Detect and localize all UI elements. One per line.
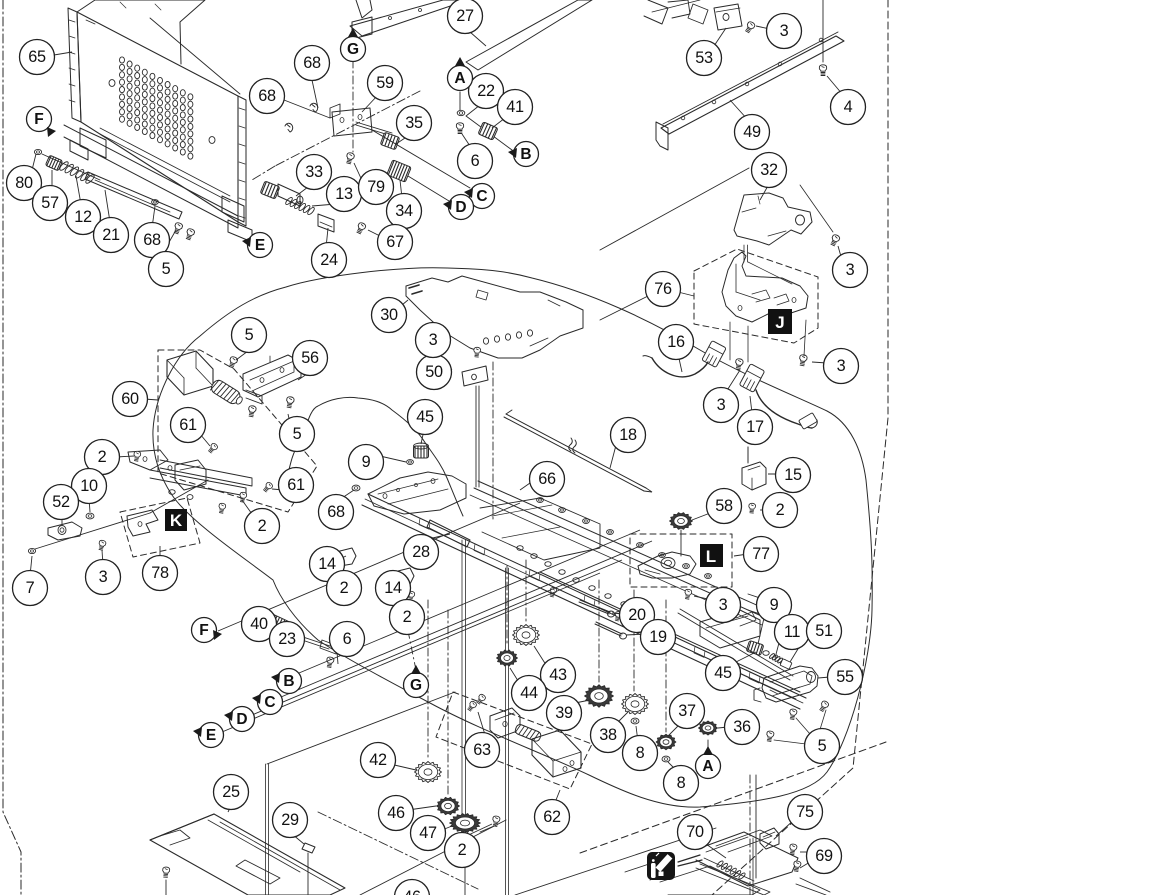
callout 66 (530, 462, 565, 497)
view arrow C (258, 690, 283, 715)
svg-text:14: 14 (384, 579, 402, 597)
drop 17-15 (747, 447, 749, 462)
svg-text:2: 2 (98, 448, 107, 466)
svg-text:53: 53 (695, 49, 713, 67)
K bracket (127, 510, 158, 536)
callout 14 (376, 571, 411, 606)
svg-text:24: 24 (320, 251, 338, 269)
svg-text:L: L (706, 547, 716, 566)
callout 65 (20, 40, 55, 75)
callout 4 (831, 90, 866, 125)
gear 39 (585, 685, 614, 708)
solenoid 60 body (167, 351, 213, 395)
bracket 55 (762, 666, 818, 702)
screw 3 top right (829, 234, 840, 247)
callout 6 (458, 144, 493, 179)
rod 20 (580, 600, 610, 612)
svg-text:23: 23 (278, 630, 296, 648)
zone line top-center (275, 91, 420, 166)
svg-text:D: D (236, 711, 247, 728)
screw 4 + drop line (822, 0, 824, 62)
svg-text:29: 29 (281, 811, 299, 829)
callout 2 (763, 493, 798, 528)
rod 50 vertical (475, 386, 477, 487)
svg-text:6: 6 (471, 152, 480, 170)
rod 19 (596, 622, 622, 634)
knob 35 (380, 132, 399, 150)
callout 40 (242, 607, 277, 642)
svg-text:13: 13 (335, 185, 353, 203)
pin 51 (780, 659, 792, 670)
gear 38 (622, 694, 649, 715)
callout 36 (725, 710, 760, 745)
rail 49 (661, 36, 844, 134)
callout 44 (512, 676, 547, 711)
svg-text:F: F (34, 111, 43, 128)
callout 46 (379, 796, 414, 831)
wire 17 (756, 390, 812, 428)
screw 2 (47) (492, 816, 501, 827)
gear 47 (450, 814, 481, 833)
bracket 15 (742, 462, 766, 490)
svg-text:2: 2 (458, 841, 467, 859)
view arrow A (448, 66, 473, 91)
washer 79 screw (345, 152, 355, 164)
svg-text:C: C (264, 694, 275, 711)
callout 2 (85, 440, 120, 475)
svg-text:2: 2 (403, 608, 412, 626)
callout 68 (319, 495, 354, 530)
svg-text:3: 3 (719, 596, 728, 614)
plate 32 (734, 193, 812, 245)
svg-text:15: 15 (784, 466, 802, 484)
plates 61 (128, 450, 168, 470)
lever 52 (48, 522, 82, 540)
svg-text:33: 33 (305, 163, 323, 181)
svg-text:45: 45 (714, 664, 732, 682)
bracket 53 (714, 4, 742, 30)
washer 68 a (310, 103, 318, 112)
label L (700, 544, 723, 567)
back panel top (95, 0, 205, 64)
callout 16 (659, 325, 694, 360)
14b screw (407, 591, 415, 602)
plate holes (109, 80, 115, 87)
svg-text:3: 3 (780, 22, 789, 40)
J dashed zone (694, 249, 818, 343)
svg-text:B: B (520, 146, 531, 163)
lever shaft (35, 513, 150, 549)
callout 77 (744, 537, 779, 572)
plate 65 main face (77, 12, 238, 222)
callout 68 (295, 46, 330, 81)
svg-text:21: 21 (102, 226, 120, 244)
shaft D line (408, 176, 449, 201)
svg-text:61: 61 (179, 416, 197, 434)
svg-text:25: 25 (222, 783, 240, 801)
callout 61 (279, 468, 314, 503)
line B2 (299, 530, 640, 673)
14a bracket (334, 548, 356, 566)
svg-text:C: C (476, 188, 487, 205)
K dashed zone (120, 498, 200, 557)
bracket 56 (243, 355, 301, 397)
right end brackets of rail (700, 610, 760, 648)
callout 11 (775, 615, 810, 650)
callout 53 (687, 41, 722, 76)
view arrow F (27, 107, 52, 132)
callout 2 (445, 833, 480, 868)
svg-text:5: 5 (245, 326, 254, 344)
svg-text:55: 55 (836, 668, 854, 686)
svg-text:80: 80 (15, 174, 33, 192)
bar 28 (427, 520, 470, 547)
svg-text:E: E (206, 727, 216, 744)
drop lines to gears (525, 560, 527, 622)
second lower bar (540, 572, 800, 692)
svg-text:51: 51 (815, 622, 833, 640)
shaft 18 tail top (506, 410, 512, 414)
66 washers row (537, 498, 544, 503)
callout 41 (498, 90, 533, 125)
callout 78 (143, 556, 178, 591)
svg-text:20: 20 (628, 606, 646, 624)
shaft to B (466, 116, 512, 150)
carriage mid block (480, 498, 600, 560)
svg-text:58: 58 (715, 497, 733, 515)
gear 46 (437, 797, 460, 814)
svg-text:76: 76 (654, 280, 672, 298)
svg-text:62: 62 (543, 808, 561, 826)
screw 3 (53) (744, 21, 756, 34)
callout 3 (706, 588, 741, 623)
24 bracket small (318, 214, 334, 232)
connector 16 (702, 341, 726, 368)
svg-text:D: D (455, 199, 466, 216)
line D2 (252, 560, 622, 715)
gear 36 (699, 721, 718, 735)
rail 49 left foot (656, 122, 668, 150)
drop lines 32 to 76 (743, 245, 745, 262)
knob 40 (261, 612, 292, 638)
callout 58 (707, 489, 742, 524)
svg-text:3: 3 (837, 357, 846, 375)
washer 7 (28, 548, 35, 553)
callout 28 (404, 535, 439, 570)
callout 29 (273, 803, 308, 838)
callout 23 (270, 622, 305, 657)
gear 58 (670, 513, 693, 530)
svg-text:J: J (775, 313, 784, 332)
dashdot vertical center (492, 362, 494, 522)
A drop line (459, 92, 461, 110)
callout 79 (359, 170, 394, 205)
callout 43 (541, 658, 576, 693)
page border dash-dot left (3, 0, 21, 895)
svg-text:27: 27 (456, 7, 474, 25)
callout 63 (465, 733, 500, 768)
svg-text:3: 3 (429, 331, 438, 349)
svg-text:46: 46 (387, 804, 405, 822)
svg-text:5: 5 (818, 737, 827, 755)
60 dashed zone (158, 350, 317, 512)
shaft break mark (569, 438, 573, 451)
svg-text:8: 8 (677, 774, 686, 792)
washer 68c (352, 485, 360, 491)
view arrow E (248, 233, 273, 258)
knob 41 (478, 122, 498, 140)
flag above rail (356, 0, 372, 18)
svg-text:K: K (170, 511, 183, 530)
line G2 dashdot (398, 582, 416, 670)
plate inner edge lines (86, 20, 95, 24)
screws 5 (55) (766, 731, 775, 742)
gear 44 (497, 650, 518, 666)
svg-text:30: 30 (380, 306, 398, 324)
callout 67 (378, 225, 413, 260)
motor 62 body (532, 730, 581, 777)
callout 37 (670, 694, 705, 729)
callout 6 (330, 622, 365, 657)
screw 3 above 50 (473, 347, 480, 357)
14a screw (337, 573, 345, 584)
label K (165, 509, 187, 531)
gear 42 (415, 762, 442, 783)
callout 47 (411, 816, 446, 851)
zone line to J (600, 168, 749, 250)
screws 5 of 56 (228, 356, 238, 369)
svg-text:19: 19 (649, 628, 667, 646)
view arrow D (230, 707, 255, 732)
line C2 (281, 541, 652, 697)
svg-text:77: 77 (752, 545, 770, 563)
svg-text:68: 68 (327, 503, 345, 521)
washer 9b (763, 651, 769, 656)
callout 8 (664, 766, 699, 801)
svg-text:57: 57 (41, 194, 59, 212)
svg-text:45: 45 (416, 408, 434, 426)
svg-text:41: 41 (506, 98, 524, 116)
svg-text:67: 67 (386, 233, 404, 251)
dashed zone 62 (436, 692, 592, 789)
callout 8 (623, 736, 658, 771)
rod 23 (288, 632, 330, 646)
shaft to knob 35 (356, 122, 392, 133)
svg-text:9: 9 (770, 596, 779, 614)
callout 45 (706, 656, 741, 691)
bracket 59 (332, 108, 372, 136)
callout 5 (149, 252, 184, 287)
svg-text:36: 36 (733, 718, 751, 736)
svg-text:44: 44 (520, 684, 538, 702)
svg-text:56: 56 (301, 349, 319, 367)
svg-text:3: 3 (846, 261, 855, 279)
shaft 18 (506, 414, 646, 488)
washer 68 b (285, 123, 293, 132)
spring 11 (769, 653, 775, 659)
svg-text:8: 8 (636, 744, 645, 762)
bracket + screw below 25 (162, 867, 170, 878)
callout 38 (591, 718, 626, 753)
plate 70 assembly (696, 832, 798, 886)
svg-text:7: 7 (26, 579, 35, 597)
svg-text:G: G (347, 41, 359, 58)
svg-text:10: 10 (80, 477, 98, 495)
washer 80 (34, 149, 41, 154)
bracket F area (80, 128, 106, 158)
view arrow G (341, 37, 366, 62)
callout 3 (824, 349, 859, 384)
svg-text:68: 68 (303, 54, 321, 72)
callout 30 (372, 298, 407, 333)
callout 34 (387, 194, 422, 229)
part 29 diamond (302, 843, 315, 853)
svg-text:35: 35 (405, 114, 423, 132)
line E2 (222, 573, 600, 732)
plate 75 (760, 828, 779, 849)
svg-text:70: 70 (686, 823, 704, 841)
callout 39 (547, 696, 582, 731)
callout 76 (646, 272, 681, 307)
svg-text:11: 11 (784, 623, 801, 641)
svg-text:69: 69 (815, 847, 833, 865)
vertical zone line (265, 764, 267, 895)
washer 8a (631, 718, 639, 724)
screws 63 (467, 700, 478, 712)
svg-text:22: 22 (477, 82, 495, 100)
small screw near 68 washer (152, 200, 159, 205)
svg-text:6: 6 (343, 630, 352, 648)
svg-text:43: 43 (549, 666, 567, 684)
small parts center 61 (169, 490, 175, 495)
callout 68 (135, 223, 170, 258)
svg-text:2: 2 (340, 579, 349, 597)
washers below rail (517, 546, 523, 551)
svg-text:46: 46 (403, 888, 421, 895)
svg-text:63: 63 (473, 741, 491, 759)
zone dashed line bottom right (580, 742, 886, 853)
pulley 45 (414, 446, 429, 458)
callout 21 (94, 218, 129, 253)
shaft through (42, 154, 100, 180)
bottom rail bar (64, 125, 238, 228)
callout 69 (807, 839, 842, 874)
screw 3b (98, 540, 107, 551)
callout 9 (757, 588, 792, 623)
callout 52 (44, 485, 79, 520)
svg-text:60: 60 (121, 390, 139, 408)
svg-text:3: 3 (717, 396, 726, 414)
66 end bracket (748, 594, 772, 618)
svg-text:A: A (702, 758, 713, 775)
view arrow B (514, 142, 539, 167)
screw 6b (326, 657, 335, 668)
worm shaft 62 (514, 723, 542, 742)
svg-text:2: 2 (776, 501, 785, 519)
bottom centre zone lines (318, 812, 478, 889)
svg-text:16: 16 (667, 333, 685, 351)
screw 3 bottom (J) (798, 354, 807, 366)
pulley 45b (746, 640, 764, 655)
callout 3 (704, 388, 739, 423)
callout 14 (310, 547, 345, 582)
svg-text:78: 78 (151, 564, 169, 582)
svg-text:42: 42 (369, 751, 387, 769)
page border dashed right (712, 0, 888, 895)
svg-text:3: 3 (99, 568, 108, 586)
plate left edge strip (68, 8, 81, 122)
small screws below rail (549, 587, 557, 597)
callout 70 (678, 815, 713, 850)
callout 5 (280, 417, 315, 452)
callout 56 (293, 341, 328, 376)
bracket 77 (638, 552, 696, 578)
callout 3 (767, 14, 802, 49)
view arrow D (449, 195, 474, 220)
lower extra plates (696, 864, 770, 895)
upper rail 66 bar (478, 481, 770, 611)
view arrow A (696, 754, 721, 779)
screws 69 (789, 844, 798, 855)
callout 50 (417, 355, 452, 390)
svg-text:39: 39 (555, 704, 573, 722)
bracket 50 (462, 366, 488, 386)
svg-text:4: 4 (844, 98, 853, 116)
callout 61 (171, 408, 206, 443)
callout 22 (469, 74, 504, 109)
svg-text:12: 12 (74, 208, 92, 226)
view arrow F (192, 618, 217, 643)
drop line 17 (747, 447, 749, 463)
wires from icon (678, 855, 700, 862)
svg-text:F: F (199, 622, 208, 639)
spring 12 (59, 160, 70, 171)
callout 27 (448, 0, 483, 34)
spring 70 (716, 860, 724, 868)
connector 17 (739, 364, 764, 393)
plate 25 (150, 814, 345, 895)
svg-text:18: 18 (619, 426, 637, 444)
svg-text:E: E (255, 237, 265, 254)
callout 2 (390, 600, 425, 635)
screw 2 (15) (748, 503, 755, 513)
callout 7 (13, 571, 48, 606)
callout 46 (395, 880, 430, 895)
callout 33 (297, 155, 332, 190)
callout 25 (214, 775, 249, 810)
svg-text:68: 68 (258, 87, 276, 105)
callout 15 (776, 458, 811, 493)
svg-text:5: 5 (162, 260, 171, 278)
callout 10 (72, 469, 107, 504)
svg-text:14: 14 (318, 555, 336, 573)
callout 35 (397, 106, 432, 141)
screw 3 mid (734, 358, 743, 370)
svg-text:17: 17 (746, 418, 764, 436)
callout 5 (805, 729, 840, 764)
more plates bottom (660, 866, 760, 895)
svg-text:65: 65 (28, 48, 46, 66)
svg-text:28: 28 (412, 543, 430, 561)
callout 2 (327, 571, 362, 606)
callout 18 (611, 418, 646, 453)
callout 59 (368, 66, 403, 101)
svg-text:49: 49 (743, 123, 761, 141)
svg-text:A: A (454, 70, 465, 87)
washer 8b (662, 756, 670, 762)
line A2 (707, 740, 709, 752)
svg-text:5: 5 (293, 425, 302, 443)
